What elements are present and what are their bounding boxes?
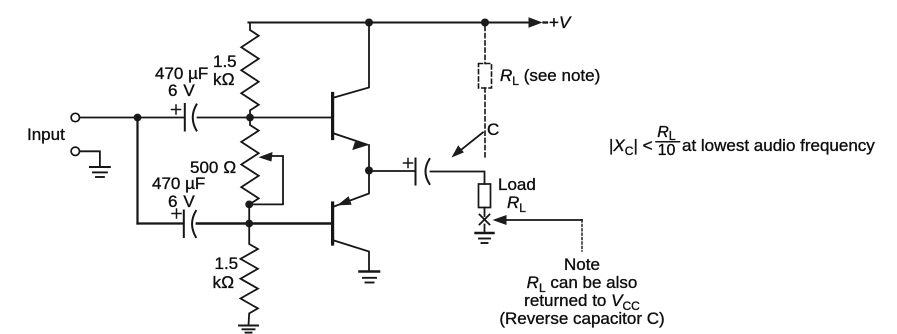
svg-text:Load: Load bbox=[498, 175, 536, 194]
resistor R2 pot 500 bbox=[241, 118, 258, 205]
wire input top to bus bbox=[80, 117, 138, 119]
svg-text:(Reverse capacitor C): (Reverse capacitor C) bbox=[499, 309, 664, 328]
capacitor C2 470uF bbox=[184, 211, 196, 238]
wire input bus vertical bbox=[136, 118, 138, 224]
wire C arrow bbox=[452, 132, 483, 157]
capacitor C1 470uF plus sign bbox=[172, 105, 181, 114]
resistor R1 1.5k bbox=[241, 23, 258, 118]
svg-text:RL (see note): RL (see note) bbox=[500, 66, 600, 88]
svg-text:RL: RL bbox=[507, 193, 526, 215]
svg-text:kΩ: kΩ bbox=[213, 70, 235, 89]
wire note arrow bbox=[493, 215, 583, 251]
svg-text:at lowest audio frequency: at lowest audio frequency bbox=[682, 136, 875, 155]
svg-text:|XC| <: |XC| < bbox=[609, 136, 653, 158]
svg-text:6 V: 6 V bbox=[168, 81, 195, 100]
terminal input bottom bbox=[71, 147, 79, 155]
resistor R3 1.5k lower bbox=[241, 224, 258, 326]
svg-text:1.5: 1.5 bbox=[215, 254, 239, 273]
wire C2 to Q2 base bbox=[197, 222, 331, 224]
svg-text:6 V: 6 V bbox=[168, 192, 195, 211]
svg-text:C: C bbox=[487, 120, 499, 139]
node base wire junction bbox=[245, 220, 253, 228]
node output junction bbox=[365, 167, 373, 175]
wire output to C3 bbox=[369, 170, 414, 172]
resistor RL dashed note branch bbox=[479, 27, 492, 159]
wire base node to Q1 bbox=[250, 117, 331, 119]
node supply junction at collector branch bbox=[365, 19, 373, 27]
svg-text:RL: RL bbox=[657, 124, 676, 143]
wire fraction bar bbox=[656, 141, 680, 143]
terminal input top bbox=[71, 113, 79, 121]
node pot bottom junction bbox=[245, 201, 253, 209]
wire pot wiper loop bbox=[251, 152, 283, 204]
capacitor C3 plus sign bbox=[404, 159, 413, 168]
wire C1 to base node bbox=[198, 117, 251, 119]
transistor Q1 NPN bbox=[333, 23, 369, 171]
capacitor C2 470uF plus sign bbox=[172, 209, 181, 218]
label XC formula bbox=[609, 124, 875, 159]
svg-text:470 µF: 470 µF bbox=[152, 174, 205, 193]
ground input bbox=[90, 167, 110, 177]
wire C3 to load bbox=[431, 172, 485, 185]
svg-text:Note: Note bbox=[564, 255, 600, 274]
ground load bbox=[476, 233, 494, 243]
wire bus to C1 bbox=[138, 117, 185, 119]
svg-text:kΩ: kΩ bbox=[213, 273, 235, 292]
svg-text:+V: +V bbox=[549, 13, 572, 32]
node input bus junction bbox=[134, 114, 142, 122]
resistor RL load box bbox=[479, 184, 491, 208]
node supply junction at RL dashed branch bbox=[481, 19, 489, 27]
junction x mark bbox=[480, 215, 490, 225]
wire load to x bbox=[484, 208, 486, 217]
capacitor C3 bbox=[416, 159, 430, 185]
wire input bottom to ground bbox=[80, 151, 100, 166]
wire bus to C2 bbox=[138, 222, 184, 224]
node NPN base junction bbox=[246, 114, 254, 122]
wire x to ground bbox=[484, 225, 486, 233]
capacitor C1 470uF bbox=[185, 104, 197, 131]
wire top supply rail bbox=[249, 17, 548, 27]
wire pot bottom to base wire bbox=[248, 204, 250, 223]
svg-text:1.5: 1.5 bbox=[213, 52, 237, 71]
svg-text:10: 10 bbox=[658, 142, 676, 159]
ground Q2 bbox=[360, 272, 380, 283]
transistor Q2 PNP bbox=[333, 171, 369, 272]
svg-text:Input: Input bbox=[27, 125, 65, 144]
ground R3 bbox=[239, 326, 258, 333]
